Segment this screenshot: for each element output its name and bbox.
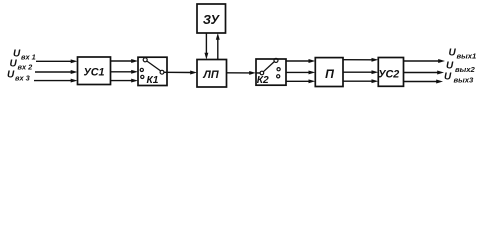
wire K2-P ch1 (286, 59, 315, 63)
wire US1-K1 ch3 (111, 79, 139, 83)
label Uvx2 (10, 59, 34, 72)
wire output 2 (404, 71, 445, 75)
label Uvyx3 (444, 72, 474, 85)
K1 common contact (160, 70, 164, 74)
block LP (linear converter) (197, 60, 227, 88)
svg-text:УС2: УС2 (378, 68, 399, 80)
block US2 (amplifier 2) (378, 58, 403, 87)
block K2 (commutator 2) (256, 58, 286, 86)
K1 contact mid (140, 68, 143, 71)
wire output 1 (404, 59, 446, 63)
block K1 (commutator 1) (138, 57, 167, 86)
label Uvyx1 (449, 48, 477, 61)
svg-text:вх 3: вх 3 (15, 73, 31, 82)
K2 common contact (260, 71, 264, 75)
wire LP-K2 (227, 71, 261, 75)
svg-text:ЛП: ЛП (202, 69, 218, 81)
label Uvx1 (13, 49, 36, 62)
wire US1-K1 ch1 (111, 59, 139, 63)
wire output 3 (404, 80, 444, 84)
svg-text:К2: К2 (257, 75, 269, 86)
wire input 3 (34, 79, 78, 83)
wire P-US2 ch1 (343, 58, 378, 62)
wire input 2 (35, 70, 78, 74)
svg-text:К1: К1 (147, 75, 159, 86)
wire K2-P ch2 (286, 70, 315, 74)
wire K1-LP (164, 71, 197, 75)
wire ZU to LP (down) (204, 33, 208, 60)
svg-text:вых1: вых1 (457, 52, 477, 61)
K2 contact top (274, 58, 278, 62)
K2 contact bottom (277, 75, 280, 78)
svg-text:П: П (325, 67, 334, 81)
block ZU (storage unit) (197, 4, 226, 33)
svg-text:ЗУ: ЗУ (203, 13, 221, 27)
wire US1-K1 ch2 (111, 70, 139, 74)
K1 contact top (143, 58, 147, 62)
K1 contact bottom (141, 75, 144, 78)
svg-text:U: U (449, 48, 457, 59)
svg-text:U: U (10, 59, 18, 70)
wire P-US2 ch3 (343, 79, 378, 83)
block US1 (amplifier 1) (78, 57, 111, 85)
svg-text:U: U (446, 61, 454, 72)
K2 contact mid (277, 68, 280, 71)
svg-text:вых3: вых3 (454, 76, 474, 85)
svg-text:U: U (7, 70, 15, 81)
svg-text:вх 1: вх 1 (21, 52, 36, 61)
label Uvyx2 (446, 61, 475, 74)
K2 switch arm (263, 62, 274, 72)
svg-text:вх 2: вх 2 (18, 62, 34, 71)
block P (converter) (315, 58, 343, 87)
wire P-US2 ch2 (343, 70, 378, 74)
svg-text:U: U (444, 72, 452, 83)
svg-text:УС1: УС1 (83, 67, 104, 79)
svg-text:вых2: вых2 (455, 65, 475, 74)
wire K2-P ch3 (286, 79, 315, 83)
label Uvx3 (7, 70, 31, 83)
K1 switch arm (147, 61, 161, 71)
wire input 1 (36, 59, 78, 63)
wire LP to ZU (up) (216, 33, 220, 60)
